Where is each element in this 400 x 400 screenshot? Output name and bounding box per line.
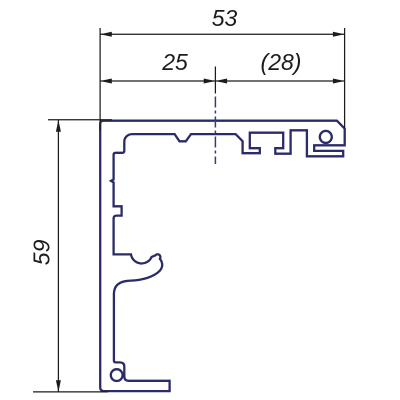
dimension line 28 <box>215 80 344 82</box>
arrow right of dim 28 <box>333 79 345 84</box>
dimension line 59 <box>57 120 59 392</box>
extension line bottom horizontal <box>33 391 108 393</box>
svg-text:(28): (28) <box>261 49 302 75</box>
extension line right vertical <box>344 28 346 128</box>
arrow left of dim 25 <box>100 79 112 84</box>
dimension line 25 <box>100 80 215 82</box>
arrow right of dim 53 <box>333 32 345 37</box>
arrow top of dim 59 <box>56 120 61 132</box>
arrow left of dim 28 <box>215 79 227 84</box>
svg-text:59: 59 <box>29 239 55 265</box>
svg-text:25: 25 <box>161 49 188 75</box>
hole circle top-right <box>320 131 332 143</box>
arrow right of dim 25 <box>204 79 216 84</box>
arrow bottom of dim 59 <box>56 380 61 392</box>
hole circle bottom-left <box>111 369 123 381</box>
svg-text:53: 53 <box>212 5 238 31</box>
extension line top-left horizontal <box>48 119 112 121</box>
profile outline (aluminum section) <box>100 121 345 391</box>
dimension line 53 <box>100 33 345 35</box>
extension line left vertical <box>99 28 101 131</box>
centerline black upper part <box>214 67 216 94</box>
arrow left of dim 53 <box>100 32 112 37</box>
centerline dash-dot lower part <box>214 97 216 165</box>
